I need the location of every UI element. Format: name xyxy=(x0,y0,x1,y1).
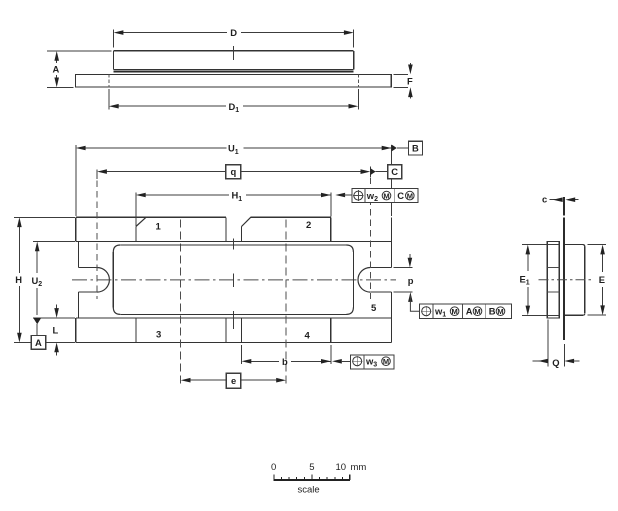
svg-text:3: 3 xyxy=(156,330,161,341)
dimension A xyxy=(47,51,112,87)
step line top xyxy=(79,241,392,243)
dimension q xyxy=(97,165,370,179)
lead 4 xyxy=(242,318,331,343)
svg-text:p: p xyxy=(408,275,414,286)
svg-text:b: b xyxy=(282,356,288,367)
c extension stubs xyxy=(563,197,565,215)
svg-text:5: 5 xyxy=(309,462,314,473)
datum B flag xyxy=(392,141,423,155)
hidden edge dashed right xyxy=(357,74,359,87)
flange outline top view xyxy=(76,217,392,342)
svg-text:q: q xyxy=(231,166,237,177)
svg-text:B: B xyxy=(489,306,496,317)
cap end view xyxy=(565,245,585,316)
svg-text:scale: scale xyxy=(298,485,320,496)
scale bar xyxy=(271,462,366,496)
dimension e xyxy=(181,373,286,388)
svg-text:A: A xyxy=(466,306,473,317)
datum A flag xyxy=(31,318,45,349)
hidden edge dashed left xyxy=(108,74,110,87)
center tick side view xyxy=(233,46,235,60)
lead 1 xyxy=(136,217,226,241)
dimension U2 xyxy=(32,242,76,318)
end view centerline xyxy=(539,279,593,281)
dimension L xyxy=(53,305,59,356)
seal ring thick bar xyxy=(114,71,354,73)
dimension Q xyxy=(533,320,580,368)
svg-text:10: 10 xyxy=(336,462,347,473)
left slot arc xyxy=(97,268,109,293)
dimension D xyxy=(114,27,354,48)
horizontal centerline xyxy=(72,279,396,281)
svg-text:A: A xyxy=(53,64,60,75)
cap body side view xyxy=(114,51,354,70)
svg-text:c: c xyxy=(542,193,547,204)
dimension E xyxy=(599,245,605,316)
left slot center dashed ext xyxy=(96,170,98,299)
vertical centerline segments xyxy=(233,239,235,250)
svg-text:5: 5 xyxy=(371,303,377,314)
right slot center dashed ext xyxy=(369,167,371,299)
fcf w2 xyxy=(335,189,418,203)
lead plate end view xyxy=(563,218,565,341)
lead 2-4 centerline xyxy=(285,220,287,387)
svg-text:D: D xyxy=(230,27,237,38)
lead 3 xyxy=(136,318,226,343)
right slot arc xyxy=(358,268,370,293)
lead 2 xyxy=(242,217,331,241)
svg-text:1: 1 xyxy=(156,222,162,233)
svg-text:M: M xyxy=(497,307,503,316)
svg-text:M: M xyxy=(452,307,458,316)
dimension E1 xyxy=(520,245,531,316)
E1 extension lines xyxy=(522,244,547,246)
svg-text:0: 0 xyxy=(271,462,276,473)
dimension c xyxy=(542,193,579,204)
dimension p xyxy=(393,254,414,292)
svg-text:H: H xyxy=(15,274,22,285)
dimension H xyxy=(14,217,75,342)
E extension lines xyxy=(588,244,607,246)
svg-text:C: C xyxy=(391,166,398,177)
svg-text:4: 4 xyxy=(305,331,311,342)
dimension F xyxy=(394,63,414,99)
svg-text:mm: mm xyxy=(351,462,367,473)
dimension H1 xyxy=(136,190,331,226)
svg-text:M: M xyxy=(383,191,389,200)
fcf w3 xyxy=(332,355,394,369)
svg-text:e: e xyxy=(231,375,236,386)
svg-text:L: L xyxy=(53,325,59,336)
lead 1-3 centerline xyxy=(180,220,182,387)
flange bar end view xyxy=(547,241,559,318)
svg-text:M: M xyxy=(383,357,389,366)
svg-text:M: M xyxy=(474,307,480,316)
dimension b xyxy=(242,345,331,367)
flange side view xyxy=(76,75,392,88)
svg-text:C: C xyxy=(397,190,404,201)
fcf w1 leader xyxy=(408,292,511,319)
dimension U1 xyxy=(76,143,392,216)
svg-text:Q: Q xyxy=(552,357,559,368)
cap top view rounded xyxy=(113,245,353,314)
step line bottom xyxy=(79,317,392,319)
dimension D1 xyxy=(109,89,358,114)
svg-text:A: A xyxy=(35,337,42,348)
svg-text:M: M xyxy=(407,191,413,200)
svg-text:B: B xyxy=(412,143,419,154)
svg-text:2: 2 xyxy=(306,220,311,231)
svg-text:E: E xyxy=(599,274,605,285)
svg-text:F: F xyxy=(407,75,413,86)
datum C flag xyxy=(370,165,402,179)
